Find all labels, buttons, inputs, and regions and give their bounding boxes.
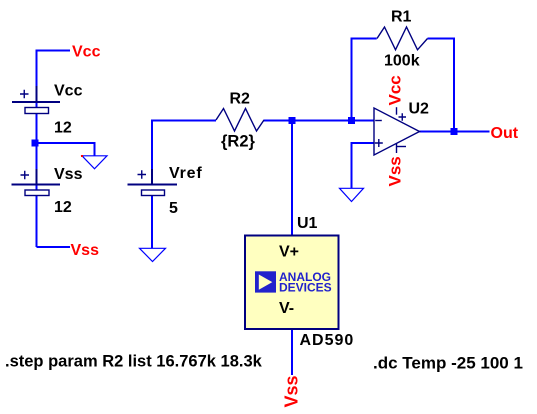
svg-text:V-: V- [279, 300, 294, 317]
svg-text:100k: 100k [384, 53, 420, 70]
svg-text:.dc Temp -25 100 1: .dc Temp -25 100 1 [373, 353, 523, 372]
svg-text:.step param R2 list 16.767k 18: .step param R2 list 16.767k 18.3k [5, 353, 263, 371]
svg-text:Vcc: Vcc [386, 75, 405, 105]
svg-text:Vref: Vref [169, 165, 202, 182]
svg-text:V+: V+ [279, 244, 299, 261]
svg-text:Out: Out [491, 125, 519, 142]
svg-text:AD590: AD590 [300, 332, 355, 349]
svg-text:12: 12 [54, 199, 72, 216]
svg-text:U1: U1 [297, 215, 318, 232]
svg-text:{R2}: {R2} [221, 133, 256, 151]
svg-text:U2: U2 [409, 101, 430, 118]
svg-text:5: 5 [169, 200, 178, 217]
svg-text:Vss: Vss [71, 242, 100, 259]
svg-text:DEVICES: DEVICES [279, 281, 332, 295]
svg-text:12: 12 [54, 120, 72, 137]
svg-text:Vss: Vss [54, 166, 83, 183]
svg-text:R1: R1 [391, 9, 412, 26]
svg-text:Vcc: Vcc [54, 83, 83, 100]
svg-text:Vss: Vss [282, 375, 302, 407]
svg-text:Vcc: Vcc [72, 44, 101, 61]
svg-text:Vss: Vss [386, 156, 405, 186]
svg-text:R2: R2 [230, 91, 251, 108]
